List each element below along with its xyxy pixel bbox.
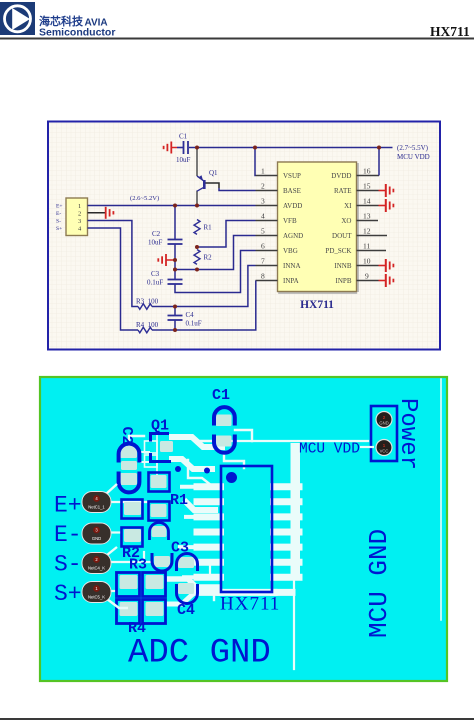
svg-text:5: 5 <box>261 227 265 236</box>
svg-text:MCU VDD: MCU VDD <box>299 442 360 458</box>
svg-text:HX711: HX711 <box>220 594 280 615</box>
svg-text:BASE: BASE <box>283 187 301 195</box>
svg-text:C3: C3 <box>151 270 160 278</box>
svg-text:16: 16 <box>363 167 371 176</box>
svg-text:GND: GND <box>92 536 101 541</box>
svg-text:NetC4_K: NetC4_K <box>88 566 105 571</box>
svg-text:C2: C2 <box>152 230 161 238</box>
svg-text:R1: R1 <box>170 492 188 509</box>
svg-text:4: 4 <box>261 212 265 221</box>
svg-text:C1: C1 <box>179 133 188 141</box>
svg-text:INPB: INPB <box>336 277 352 285</box>
svg-text:(2.7~5.5V): (2.7~5.5V) <box>397 144 429 152</box>
svg-text:11: 11 <box>363 242 370 251</box>
svg-text:3: 3 <box>261 197 265 206</box>
svg-text:DVDD: DVDD <box>331 172 351 180</box>
svg-text:INNA: INNA <box>283 262 301 270</box>
svg-text:NetC1_1: NetC1_1 <box>88 505 105 510</box>
svg-text:3: 3 <box>78 218 81 225</box>
svg-text:Semiconductor: Semiconductor <box>39 27 115 39</box>
svg-text:XI: XI <box>344 202 352 210</box>
svg-text:9: 9 <box>365 272 369 281</box>
svg-text:R3: R3 <box>129 557 147 574</box>
svg-text:GND: GND <box>379 421 388 426</box>
svg-text:10uF: 10uF <box>176 156 191 164</box>
svg-text:C1: C1 <box>212 387 230 404</box>
svg-text:VBG: VBG <box>283 247 298 255</box>
svg-text:XO: XO <box>341 217 351 225</box>
svg-text:RATE: RATE <box>334 187 352 195</box>
svg-text:13: 13 <box>363 212 371 221</box>
svg-text:S-: S- <box>56 219 61 225</box>
svg-text:S+: S+ <box>54 581 82 607</box>
svg-text:0.1uF: 0.1uF <box>186 320 202 328</box>
svg-text:MCU VDD: MCU VDD <box>397 153 430 161</box>
svg-text:ADC GND: ADC GND <box>128 635 271 673</box>
svg-text:NetC5_K: NetC5_K <box>88 595 105 600</box>
svg-text:AGND: AGND <box>283 232 303 240</box>
svg-text:AVDD: AVDD <box>283 202 302 210</box>
svg-text:1: 1 <box>261 167 265 176</box>
svg-text:Q1: Q1 <box>151 418 169 435</box>
svg-text:HX711: HX711 <box>430 24 470 39</box>
svg-text:10: 10 <box>363 257 371 266</box>
svg-text:R1: R1 <box>204 224 213 232</box>
svg-text:7: 7 <box>261 257 265 266</box>
svg-text:0.1uF: 0.1uF <box>147 279 163 287</box>
svg-text:2: 2 <box>261 182 265 191</box>
svg-text:1: 1 <box>78 203 81 210</box>
svg-text:S-: S- <box>54 552 82 578</box>
svg-text:6: 6 <box>261 242 265 251</box>
svg-text:INPA: INPA <box>283 277 299 285</box>
svg-text:Power: Power <box>394 398 421 470</box>
svg-text:Q1: Q1 <box>209 169 218 177</box>
svg-text:E+: E+ <box>54 493 82 519</box>
svg-text:E-: E- <box>54 522 82 548</box>
svg-text:R4 100: R4 100 <box>136 321 159 329</box>
svg-text:R3 100: R3 100 <box>136 298 159 306</box>
svg-text:INNB: INNB <box>334 262 351 270</box>
svg-text:C2: C2 <box>118 427 135 445</box>
svg-text:DOUT: DOUT <box>332 232 352 240</box>
svg-text:15: 15 <box>363 182 371 191</box>
svg-text:HX711: HX711 <box>300 299 334 311</box>
svg-text:C3: C3 <box>171 540 189 557</box>
svg-text:(2.6~5.2V): (2.6~5.2V) <box>130 195 159 202</box>
svg-text:VCC: VCC <box>380 449 389 454</box>
svg-text:S+: S+ <box>56 226 62 232</box>
svg-text:12: 12 <box>363 227 371 236</box>
svg-text:E-: E- <box>56 211 61 217</box>
svg-text:14: 14 <box>363 197 371 206</box>
svg-text:10uF: 10uF <box>148 239 163 247</box>
svg-text:C4: C4 <box>186 311 195 319</box>
svg-text:C4: C4 <box>177 602 195 619</box>
svg-text:8: 8 <box>261 272 265 281</box>
svg-text:R2: R2 <box>204 254 213 262</box>
svg-text:VSUP: VSUP <box>283 172 301 180</box>
svg-text:MCU GND: MCU GND <box>364 529 394 638</box>
svg-text:2: 2 <box>78 210 81 217</box>
svg-text:E+: E+ <box>56 204 63 210</box>
svg-text:VFB: VFB <box>283 217 297 225</box>
svg-text:PD_SCK: PD_SCK <box>325 247 351 255</box>
